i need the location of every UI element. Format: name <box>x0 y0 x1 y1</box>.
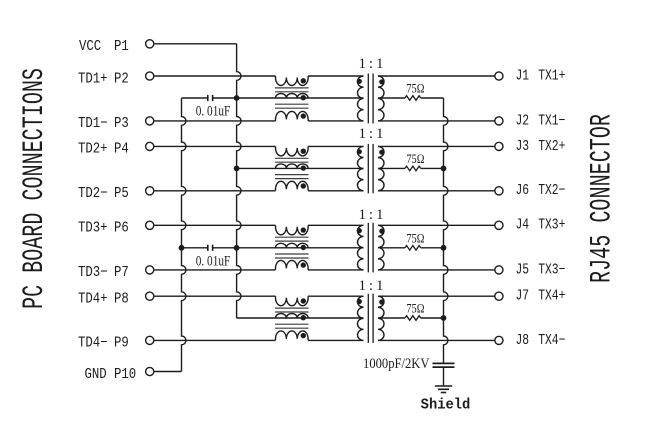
pin J5 (TX3−) <box>495 266 503 274</box>
transformer T3 secondary phase dot <box>379 229 384 234</box>
svg-text:1: 1 <box>376 56 384 72</box>
junction shield bus / R4 <box>441 315 447 321</box>
svg-text:TX1−: TX1− <box>538 112 565 129</box>
wire choke L2 to T2 primary bottom <box>308 190 363 192</box>
svg-text:TX1+: TX1+ <box>538 67 565 84</box>
svg-text:Shield: Shield <box>421 397 471 414</box>
transformer T4 secondary winding <box>378 296 384 340</box>
svg-text:TX2+: TX2+ <box>538 137 565 154</box>
svg-text:75Ω: 75Ω <box>406 231 424 245</box>
choke L2 phase dots <box>301 149 306 154</box>
wire choke L2 to T2 primary top <box>308 145 363 147</box>
svg-text:PC BOARD CONNECTIONS: PC BOARD CONNECTIONS <box>17 68 51 309</box>
svg-text:TD1+: TD1+ <box>78 71 108 87</box>
choke L3 core bars <box>275 236 309 238</box>
choke L1 top winding <box>276 76 309 86</box>
wire choke L1 to T1 primary bottom <box>308 120 363 122</box>
pin P7 (TD3−) <box>146 266 154 274</box>
pin P2 (TD1+) <box>146 72 154 80</box>
wire TD2− P5 to choke L2 <box>154 190 275 192</box>
choke L2 core bars <box>275 157 309 159</box>
wire TD1+ P2 to choke L1 <box>154 75 275 77</box>
wire T1 secondary bottom to J2 <box>378 120 495 122</box>
svg-text:J3: J3 <box>516 137 530 154</box>
wire T1 secondary top to J1 <box>378 75 495 77</box>
choke L3 middle winding <box>276 243 309 248</box>
transformer T1 primary phase dot <box>357 79 362 84</box>
junction VCC bus / ch2 mid <box>234 166 240 172</box>
choke L4 top winding <box>276 296 309 306</box>
wire R4 to shield bus <box>421 317 444 319</box>
wire shield bus (vertical) <box>444 98 448 363</box>
pin J8 (TX4−) <box>495 336 503 344</box>
svg-text:0. 01uF: 0. 01uF <box>196 102 230 119</box>
resistor R4 75Ω <box>405 316 421 321</box>
wire T4 secondary tap to R4 <box>378 317 405 319</box>
svg-text:J1: J1 <box>516 67 530 84</box>
choke L3 bottom winding <box>276 260 309 270</box>
resistor R3 75Ω <box>405 246 421 251</box>
svg-text::: : <box>369 207 373 223</box>
wire TD3+ P6 to choke L3 <box>154 224 275 226</box>
capacitor C1 0.01uF wire left <box>182 97 208 99</box>
svg-text:TX4−: TX4− <box>538 331 565 348</box>
svg-text::: : <box>369 56 373 72</box>
resistor R2 75Ω <box>405 166 421 171</box>
svg-text:1: 1 <box>376 207 384 223</box>
svg-text:75Ω: 75Ω <box>406 82 424 96</box>
svg-text:TD2+: TD2+ <box>78 142 108 158</box>
pin P9 (TD4−) <box>146 336 154 344</box>
svg-text:0. 01uF: 0. 01uF <box>196 252 230 269</box>
pin P10 (GND) <box>146 367 154 375</box>
capacitor C2 wire right <box>213 247 237 249</box>
wire T2 secondary top to J3 <box>378 145 495 147</box>
wire R3 to shield bus <box>421 247 444 249</box>
svg-text:TD3+: TD3+ <box>78 221 108 237</box>
wire T3 secondary top to J4 <box>378 224 495 226</box>
svg-text:TD2−: TD2− <box>78 186 108 202</box>
svg-text:TX2−: TX2− <box>538 182 565 199</box>
svg-text:P9: P9 <box>114 336 129 352</box>
wire ch3 center tap (VCC bus to T3 primary tap) <box>237 247 364 249</box>
capacitor C2 0.01uF plates <box>207 245 209 251</box>
svg-text:P1: P1 <box>114 39 129 55</box>
svg-text:J6: J6 <box>516 182 530 199</box>
capacitor C2 0.01uF wire left <box>182 247 208 249</box>
svg-text:75Ω: 75Ω <box>406 302 424 316</box>
pin J6 (TX2−) <box>495 187 503 195</box>
pin P3 (TD1−) <box>146 117 154 125</box>
wire GND bus (vertical) <box>182 98 186 372</box>
junction shield bus / R3 <box>441 245 447 251</box>
wire ch1 center tap (VCC bus to T1 primary tap) <box>237 97 364 99</box>
wire ch2 center tap (VCC bus to T2 primary tap) <box>237 167 364 169</box>
pin J7 (TX4+) <box>495 292 503 300</box>
svg-text:J2: J2 <box>516 112 530 129</box>
transformer T2 secondary phase dot <box>379 150 384 155</box>
choke L2 middle winding <box>276 164 309 169</box>
wire T4 secondary top to J7 <box>378 295 495 297</box>
junction VCC bus / ch3 mid <box>234 245 240 251</box>
svg-text:J4: J4 <box>516 216 530 233</box>
pin P1 (VCC) <box>146 40 154 48</box>
svg-text:P3: P3 <box>114 116 129 132</box>
wire choke L1 to T1 primary top <box>308 75 363 77</box>
choke L4 core bars <box>275 307 309 309</box>
junction GND bus / ch3 cap row <box>179 245 185 251</box>
svg-text:TD3−: TD3− <box>78 265 108 281</box>
wire choke L4 to T4 primary bottom <box>308 339 363 341</box>
transformer T4 core <box>367 294 369 343</box>
svg-text:TD4+: TD4+ <box>78 292 108 308</box>
wire P1 to VCC bus corner <box>154 43 236 45</box>
wire ch4 center tap (VCC bus to T4 primary tap) <box>237 317 364 319</box>
wire T3 secondary bottom to J5 <box>378 269 495 271</box>
transformer T2 core <box>367 144 369 193</box>
svg-text:P10: P10 <box>114 367 136 383</box>
choke L1 core bars <box>275 87 309 89</box>
svg-text:TX3+: TX3+ <box>538 216 565 233</box>
svg-text:P5: P5 <box>114 186 129 202</box>
pin P4 (TD2+) <box>146 142 154 150</box>
wire T2 secondary bottom to J6 <box>378 190 495 192</box>
choke L1 middle winding <box>276 93 309 98</box>
resistor R1 75Ω <box>405 96 421 101</box>
pin J4 (TX3+) <box>495 221 503 229</box>
pin P5 (TD2−) <box>146 187 154 195</box>
wire T1 secondary tap to R1 <box>378 97 405 99</box>
pin J3 (TX2+) <box>495 142 503 150</box>
wire T3 secondary tap to R3 <box>378 247 405 249</box>
svg-text::: : <box>369 278 373 294</box>
wire TD3− P7 to choke L3 <box>154 269 275 271</box>
svg-text::: : <box>369 126 373 142</box>
svg-text:1: 1 <box>358 278 366 294</box>
svg-text:GND: GND <box>85 367 107 383</box>
ground (Shield) <box>435 385 452 387</box>
transformer T1 core <box>367 74 369 124</box>
svg-text:RJ45 CONNECTOR: RJ45 CONNECTOR <box>585 114 619 283</box>
wire T2 secondary tap to R2 <box>378 167 405 169</box>
transformer T4 secondary phase dot <box>379 299 384 304</box>
svg-text:1: 1 <box>358 207 366 223</box>
wire R2 to shield bus <box>421 167 444 169</box>
svg-text:1000pF/2KV: 1000pF/2KV <box>363 355 429 371</box>
svg-text:1: 1 <box>376 126 384 142</box>
svg-text:J8: J8 <box>516 331 530 348</box>
transformer T4 primary winding <box>357 296 363 340</box>
choke L4 middle winding <box>276 313 309 318</box>
wire TD4− P9 to choke L4 <box>154 339 275 341</box>
svg-text:P2: P2 <box>114 71 129 87</box>
svg-text:1: 1 <box>358 56 366 72</box>
transformer T3 core <box>367 223 369 273</box>
svg-text:J7: J7 <box>516 287 530 304</box>
pin P8 (TD4+) <box>146 292 154 300</box>
choke L3 top winding <box>276 225 309 235</box>
capacitor C3 1000pF/2KV plates <box>433 362 455 364</box>
transformer T1 primary winding <box>357 76 363 121</box>
transformer T3 primary phase dot <box>357 228 362 233</box>
svg-text:TD4−: TD4− <box>78 336 108 352</box>
pin J2 (TX1−) <box>495 117 503 125</box>
svg-text:VCC: VCC <box>79 39 101 55</box>
transformer T3 secondary winding <box>378 225 384 270</box>
choke L2 bottom winding <box>276 181 309 191</box>
wire T4 secondary bottom to J8 <box>378 339 495 341</box>
svg-text:P6: P6 <box>114 221 129 237</box>
choke L4 bottom winding <box>276 331 309 341</box>
wire C3 to ground <box>443 367 445 386</box>
pin P6 (TD3+) <box>146 221 154 229</box>
transformer T2 secondary winding <box>378 146 384 190</box>
wire R1 to shield bus <box>421 97 444 99</box>
transformer T3 primary winding <box>357 225 363 270</box>
junction VCC bus / ch1 mid <box>234 95 240 101</box>
wire P10 to GND bus <box>154 371 181 373</box>
svg-text:1: 1 <box>376 278 384 294</box>
wire TD2+ P4 to choke L2 <box>154 145 275 147</box>
svg-text:TX4+: TX4+ <box>538 287 565 304</box>
choke L2 top winding <box>276 146 309 156</box>
svg-text:TD1−: TD1− <box>78 116 108 132</box>
svg-text:J5: J5 <box>516 261 530 278</box>
svg-text:1: 1 <box>358 126 366 142</box>
transformer T1 secondary winding <box>378 76 384 121</box>
capacitor C1 wire right <box>213 97 237 99</box>
svg-text:75Ω: 75Ω <box>406 152 424 166</box>
choke L3 phase dots <box>301 227 306 232</box>
wire TD1− P3 to choke L1 <box>154 120 275 122</box>
svg-text:P4: P4 <box>114 142 129 158</box>
wire choke L3 to T3 primary bottom <box>308 269 363 271</box>
transformer T1 secondary phase dot <box>379 79 384 84</box>
wire choke L3 to T3 primary top <box>308 224 363 226</box>
wire TD4+ P8 to choke L4 <box>154 295 275 297</box>
transformer T2 primary winding <box>357 146 363 190</box>
choke L1 bottom winding <box>276 111 309 121</box>
wire choke L4 to T4 primary top <box>308 295 363 297</box>
svg-text:TX3−: TX3− <box>538 261 565 278</box>
svg-text:P7: P7 <box>114 265 129 281</box>
choke L1 phase dots <box>301 78 306 83</box>
transformer T4 primary phase dot <box>357 299 362 304</box>
choke L4 phase dots <box>301 298 306 303</box>
capacitor C1 0.01uF plates <box>207 95 209 101</box>
wire VCC bus (vertical) <box>237 44 241 318</box>
junction shield bus / R2 <box>441 166 447 172</box>
svg-text:P8: P8 <box>114 292 129 308</box>
pin J1 (TX1+) <box>495 72 503 80</box>
transformer T2 primary phase dot <box>357 149 362 154</box>
